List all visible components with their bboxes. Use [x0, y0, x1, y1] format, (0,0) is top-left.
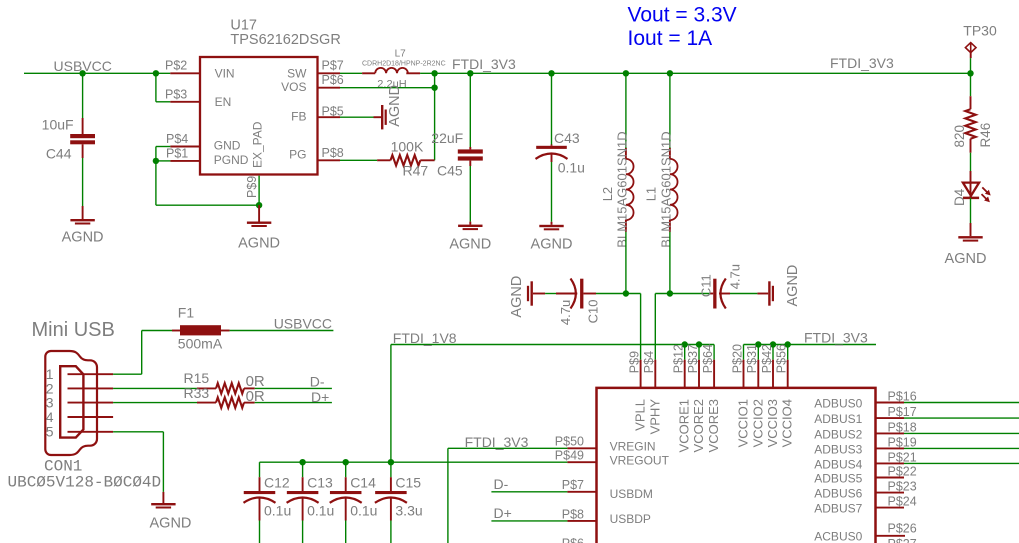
svg-text:R33: R33 [184, 385, 210, 401]
wire ADBUS3 bus [904, 447, 1019, 449]
pin label P$56 (FTDI top) [775, 344, 789, 373]
pin U17 P$8 PG [318, 159, 341, 161]
net label FTDI_1V8 [393, 330, 457, 346]
inductor L7 [362, 68, 420, 73]
svg-text:P$18: P$18 [888, 420, 917, 434]
value 0R (R33) [246, 388, 265, 405]
net label USBVCC [54, 58, 112, 74]
svg-text:VIN: VIN [215, 67, 235, 81]
net label D+ (usb) [311, 389, 329, 405]
value TPS62162DSGR [230, 32, 340, 48]
node junction C15 [388, 459, 394, 465]
wire ADBUS4 bus [904, 462, 1019, 464]
svg-text:D4: D4 [952, 188, 967, 206]
svg-text:P$31: P$31 [745, 344, 759, 373]
pin label P$42 (FTDI top) [760, 344, 774, 373]
name C14 [350, 474, 376, 490]
pin label P$64 (FTDI top) [701, 344, 715, 373]
svg-text:C10: C10 [586, 300, 601, 324]
pin U17 P$7 SW [318, 72, 341, 74]
pin name VREGOUT [610, 454, 670, 468]
pin U17 P$2 VIN [170, 72, 200, 74]
wire pin1 to F1 [113, 331, 172, 375]
svg-text:VPHY: VPHY [647, 399, 662, 435]
node junction L1 top [667, 70, 673, 76]
pin name FB [291, 110, 306, 124]
pin CON1 2 [68, 387, 114, 389]
node junction L7 out [431, 70, 437, 76]
value 0.1u C43 [558, 159, 585, 175]
wire D- to USBDM [491, 491, 567, 493]
connector CON1 inner shell [60, 366, 83, 437]
svg-text:P$27: P$27 [888, 537, 917, 543]
svg-text:0.1u: 0.1u [558, 159, 585, 175]
svg-text:SW: SW [287, 67, 307, 81]
svg-text:VCCIO3: VCCIO3 [765, 399, 780, 447]
name R15 [184, 370, 210, 386]
pin label P$23 [888, 480, 917, 494]
pin label P$18 [888, 420, 917, 434]
pin U17 P$4 GND [170, 146, 200, 148]
value 100K [391, 139, 424, 155]
wire R33 to D+ [255, 402, 332, 404]
pin label P$7 [322, 59, 344, 73]
wire ADBUS2 bus [904, 432, 1019, 434]
wire FB [340, 116, 374, 118]
pin FTDI P$64 VCORE3 [713, 360, 715, 388]
pin name VOS [281, 80, 306, 94]
wire VCCIO rail [744, 344, 877, 346]
pin label P$9 [245, 176, 259, 198]
node junction P$9 [256, 202, 262, 208]
node junction VCORE2 [696, 341, 702, 347]
connector CON1 outer shell [45, 351, 97, 455]
value 2.2uH [377, 78, 406, 90]
wire C44 bottom [82, 158, 84, 206]
svg-text:VCORE2: VCORE2 [691, 399, 706, 452]
name CON1 [44, 458, 82, 476]
node junction C13 [299, 459, 305, 465]
pin name VCORE1 [677, 399, 692, 452]
capacitor C14 [330, 477, 362, 520]
wire C15 top [390, 462, 392, 477]
pin name EX_PAD [251, 121, 265, 168]
pin label P$26 [888, 521, 917, 535]
ground AGND C10 [527, 281, 545, 305]
svg-text:VOS: VOS [281, 80, 306, 94]
pin name ADBUS2 [814, 427, 862, 441]
svg-text:P$8: P$8 [562, 507, 584, 521]
svg-text:PG: PG [289, 147, 306, 161]
wire L1 bottom [669, 232, 671, 294]
resistor R46 [965, 96, 975, 153]
wire VCCIO4 stub [787, 345, 789, 360]
svg-text:C11: C11 [698, 274, 713, 297]
svg-text:TPS62162DSGR: TPS62162DSGR [230, 32, 340, 48]
pin FTDI P$31 VCCIO2 [757, 360, 759, 388]
svg-text:ADBUS0: ADBUS0 [814, 396, 862, 410]
wire FTDI_1V8 down to VREGOUT bus [390, 345, 392, 463]
pin FTDI P$7 USBDM [567, 491, 596, 493]
pin name ADBUS6 [814, 487, 862, 501]
svg-text:P$19: P$19 [888, 435, 917, 449]
wire FTDI_3V3 rail [420, 72, 970, 74]
svg-text:P$9: P$9 [245, 176, 259, 198]
wire VCORE1 stub [684, 345, 686, 360]
pin label P$22 [888, 465, 917, 479]
node junction VCORE1 [682, 341, 688, 347]
wire C14 top [345, 462, 347, 477]
pin name EN [215, 95, 232, 109]
svg-text:ADBUS4: ADBUS4 [814, 457, 862, 471]
svg-text:VREGIN: VREGIN [610, 440, 656, 454]
pin label P$27 [888, 537, 917, 543]
svg-text:FTDI_3V3: FTDI_3V3 [804, 330, 868, 346]
svg-text:P$7: P$7 [322, 59, 344, 73]
svg-text:AGND: AGND [785, 265, 801, 307]
pin U17 P$1 PGND [170, 160, 200, 162]
svg-text:ADBUS3: ADBUS3 [814, 442, 862, 456]
net label D+ (FTDI) [494, 505, 512, 521]
net label USBVCC (fuse) [274, 315, 332, 331]
capacitor C15 [375, 477, 407, 520]
svg-text:R15: R15 [184, 370, 210, 386]
label AGND FB [387, 85, 403, 127]
svg-text:USBDP: USBDP [610, 512, 651, 526]
label AGND C44 [62, 230, 104, 246]
svg-text:P$26: P$26 [888, 521, 917, 535]
name C13 [307, 474, 333, 490]
svg-text:P$12: P$12 [672, 344, 686, 373]
svg-text:P$23: P$23 [888, 480, 917, 494]
wire L1 top [669, 73, 671, 148]
value 3.3u (C15) [395, 503, 422, 519]
pin label P$49 [555, 449, 584, 463]
label AGND C43 [531, 237, 573, 253]
pin name ADBUS7 [814, 502, 862, 516]
pin name USBDP [610, 512, 651, 526]
value 500mA [178, 335, 223, 351]
capacitor C13 [287, 477, 319, 520]
wire C12 bottom [259, 521, 261, 543]
svg-text:P$56: P$56 [775, 344, 789, 373]
pin name ADBUS0 [814, 396, 862, 410]
pin number 3 [46, 395, 54, 411]
pin label P$6 (FTDI) [562, 537, 584, 543]
svg-text:VPLL: VPLL [633, 399, 648, 431]
node junction L1 bottom [667, 290, 673, 296]
svg-text:P$17: P$17 [888, 405, 917, 419]
svg-text:P$20: P$20 [730, 344, 744, 373]
pin name ADBUS4 [814, 457, 862, 471]
capacitor C12 [244, 477, 276, 520]
svg-text:4.7u: 4.7u [558, 300, 573, 325]
name C15 [395, 474, 421, 490]
svg-text:FB: FB [291, 110, 306, 124]
wire FTDI_1V8 [391, 344, 714, 346]
label AGND CON1 [150, 516, 192, 532]
pin FTDI P$12 VCORE1 [684, 360, 686, 388]
pin label P$2 [165, 59, 187, 73]
LED D4 [963, 183, 991, 203]
svg-text:C45: C45 [437, 162, 463, 178]
net label FTDI_3V3 (left) [452, 56, 516, 72]
pin label P$1 [166, 147, 188, 161]
svg-text:VREGOUT: VREGOUT [610, 454, 670, 468]
ground AGND CON1 [151, 492, 175, 509]
IC FTDI box [597, 388, 876, 543]
name R46 [978, 123, 993, 148]
wire SW to L7 [340, 72, 362, 74]
svg-text:FTDI_3V3: FTDI_3V3 [465, 434, 529, 450]
capacitor C44 [70, 118, 95, 158]
wire ADBUS1 bus [904, 417, 1019, 419]
wire L2 top [625, 73, 627, 148]
svg-text:AGND: AGND [62, 230, 104, 246]
svg-text:FTDI_3V3: FTDI_3V3 [830, 55, 894, 71]
pin U17 P$9 EX_PAD stub [258, 176, 260, 206]
wire ADBUS0 bus [904, 402, 1019, 404]
svg-text:Iout = 1A: Iout = 1A [628, 27, 713, 50]
resistor R15 [197, 383, 255, 393]
label AGND TP30 [945, 251, 987, 267]
svg-text:ADBUS2: ADBUS2 [814, 427, 862, 441]
node junction VCCIO2 [755, 341, 761, 347]
svg-text:500mA: 500mA [178, 335, 223, 351]
wire VOS [340, 87, 435, 89]
ground AGND U17 [247, 205, 271, 227]
pin name VCCIO1 [736, 399, 751, 447]
pin FTDI P$4 VPHY [654, 360, 656, 388]
node junction VCCIO3 [770, 341, 776, 347]
svg-text:C43: C43 [554, 130, 580, 146]
svg-text:820: 820 [952, 125, 967, 148]
wire TP30 to rail [970, 58, 972, 73]
label Mini USB [32, 319, 115, 341]
pin name USBDM [610, 487, 653, 501]
node junction P$1 [153, 158, 159, 164]
pin label P$31 (FTDI top) [745, 344, 759, 373]
svg-text:P$50: P$50 [555, 434, 584, 448]
svg-text:D+: D+ [494, 505, 512, 521]
svg-text:AGND: AGND [150, 516, 192, 532]
label AGND U17 [238, 236, 280, 252]
net label FTDI_3V3 (right) [830, 55, 894, 71]
pin FTDI P$23 ADBUS6 [876, 492, 905, 494]
svg-text:D-: D- [494, 476, 509, 492]
pin CON1 3 [68, 402, 114, 404]
name L2 [600, 187, 615, 201]
svg-text:VCCIO2: VCCIO2 [750, 399, 765, 447]
wire C44 top [82, 73, 84, 118]
value 4.7u C11 [728, 264, 743, 289]
svg-text:EN: EN [215, 95, 232, 109]
pin CON1 5 [68, 431, 114, 433]
wire P$3 branch [156, 73, 170, 102]
wire C45 bottom [469, 166, 471, 222]
svg-text:AGND: AGND [531, 237, 573, 253]
net label D- (FTDI) [494, 476, 509, 492]
pin FTDI P$49 VREGOUT [567, 461, 596, 463]
wire VPHY to C11 [655, 293, 710, 295]
wire P$4/P$1 branch [156, 147, 170, 206]
pin label P$4 [166, 132, 188, 146]
value CDRH2D18/HPNP-2R2NC [362, 60, 446, 67]
pin FTDI P$50 VREGIN [567, 447, 596, 449]
wire R46 to D4 [970, 153, 972, 183]
svg-text:P$6: P$6 [562, 537, 584, 543]
pin label P$50 [555, 434, 584, 448]
node junction C45 [467, 70, 473, 76]
svg-text:USBVCC: USBVCC [274, 315, 332, 331]
svg-text:C13: C13 [307, 474, 333, 490]
label AGND C11 [785, 265, 801, 307]
name C11 [698, 274, 713, 297]
svg-text:AGND: AGND [238, 236, 280, 252]
wire D4 to AGND [970, 198, 972, 223]
svg-text:VCCIO4: VCCIO4 [780, 399, 795, 447]
ground AGND C11 [757, 281, 774, 305]
svg-text:P$37: P$37 [686, 344, 700, 373]
wire VCORE2 stub [698, 345, 700, 360]
svg-text:C12: C12 [264, 474, 290, 490]
pin label P$6 [322, 73, 344, 87]
wire F1 to USBVCC [230, 330, 334, 332]
pin name ADBUS1 [814, 412, 862, 426]
pin name VCCIO2 [750, 399, 765, 447]
svg-text:P$64: P$64 [701, 344, 715, 373]
pin label P$7 (FTDI) [562, 478, 584, 492]
wire USBVCC rail [24, 72, 170, 74]
pin FTDI P$19 ADBUS3 [876, 447, 905, 449]
pin label P$37 (FTDI top) [686, 344, 700, 373]
net label FTDI_3V3 (VCCIO) [804, 330, 868, 346]
name L7 [395, 49, 407, 60]
inductor L2 BLM15AG601SN1D [626, 148, 634, 232]
wire C13 top [302, 462, 304, 477]
wire C15 bottom [390, 521, 392, 543]
wire PG [340, 159, 377, 161]
pin name VIN [215, 67, 235, 81]
value 4.7u C10 [558, 300, 573, 325]
pin number 1 [46, 366, 54, 382]
wire C13 bottom [302, 521, 304, 543]
label AGND C45 [449, 237, 491, 253]
name F1 [178, 305, 195, 321]
svg-text:L7: L7 [395, 49, 407, 60]
pin name GND [214, 138, 241, 152]
svg-text:100K: 100K [391, 139, 424, 155]
pin name SW [287, 67, 307, 81]
svg-text:P$1: P$1 [166, 147, 188, 161]
svg-text:4.7u: 4.7u [728, 264, 743, 289]
value BLM15AG601SN1D (L1) [659, 131, 674, 247]
net label FTDI_3V3 (VREGIN) [465, 434, 529, 450]
svg-text:ADBUS6: ADBUS6 [814, 487, 862, 501]
pin label P$8 (FTDI) [562, 507, 584, 521]
pin FTDI P$42 VCCIO3 [772, 360, 774, 388]
pin CON1 4 [68, 416, 114, 418]
svg-text:TP30: TP30 [963, 23, 997, 39]
node junction C14 [343, 459, 349, 465]
node junction L2 bottom [623, 290, 629, 296]
capacitor C43 [536, 145, 568, 163]
value 0.1u (C12) [264, 503, 291, 519]
wire D+ to USBDP [491, 520, 567, 522]
node USBVCC junction C44 [79, 70, 85, 76]
svg-text:R46: R46 [978, 123, 993, 148]
svg-text:5: 5 [46, 424, 54, 440]
svg-text:C14: C14 [350, 474, 376, 490]
capacitor C11 [710, 279, 730, 309]
pin label P$19 [888, 435, 917, 449]
svg-text:L2: L2 [600, 187, 615, 201]
pin name VCCIO3 [765, 399, 780, 447]
wire C43 top [551, 73, 553, 144]
name U17 [230, 18, 257, 34]
svg-text:FTDI_3V3: FTDI_3V3 [452, 56, 516, 72]
wire rail to R46 [970, 73, 972, 96]
node junction TP30 [967, 70, 973, 76]
capacitor C10 [556, 279, 596, 309]
svg-text:ADBUS1: ADBUS1 [814, 412, 862, 426]
pin FTDI P$26 ACBUS0 [876, 535, 906, 537]
pin name VCORE2 [691, 399, 706, 452]
pin number 4 [46, 409, 54, 425]
pin FTDI P$37 VCORE2 [698, 360, 700, 388]
wire VPLL vertical [640, 294, 642, 360]
wire C43 bottom [551, 162, 553, 222]
wire R15 to D- [255, 387, 332, 389]
svg-text:AGND: AGND [509, 276, 525, 318]
name R47 [403, 163, 429, 179]
wire pin5 to AGND [113, 432, 163, 492]
svg-text:3.3u: 3.3u [395, 503, 422, 519]
pin FTDI P$8 USBDP [567, 520, 596, 522]
resistor R33 [197, 397, 255, 407]
pin label P$24 [888, 495, 917, 509]
wire L2 bottom [625, 232, 627, 294]
node junction P$2/P$3 branch [153, 70, 159, 76]
net label D- (usb) [310, 373, 325, 389]
resistor R47 [377, 155, 435, 165]
pin FTDI P$56 VCCIO4 [787, 360, 789, 388]
svg-text:P$3: P$3 [165, 87, 187, 101]
svg-text:C44: C44 [46, 146, 72, 162]
annotation Vout [628, 4, 737, 27]
svg-text:UBCØ5V128-BØCØ4D: UBCØ5V128-BØCØ4D [8, 474, 162, 492]
wire VPHY vertical [654, 294, 656, 360]
name R33 [184, 385, 210, 401]
pin number 2 [46, 380, 54, 396]
pin name VCCIO4 [780, 399, 795, 447]
pin U17 P$3 EN [170, 101, 200, 103]
svg-text:R47: R47 [403, 163, 429, 179]
wire VCORE3 stub [713, 345, 715, 360]
svg-text:F1: F1 [178, 305, 195, 321]
value 0.1u (C13) [307, 503, 334, 519]
pin FTDI P$9 VPLL [640, 360, 642, 388]
svg-text:P$4: P$4 [166, 132, 188, 146]
name C12 [264, 474, 290, 490]
pin name PG [289, 147, 306, 161]
svg-text:VCORE3: VCORE3 [706, 399, 721, 452]
inductor L1 BLM15AG601SN1D [670, 148, 678, 232]
pin FTDI P$17 ADBUS1 [876, 417, 905, 419]
value 10uF [42, 117, 74, 133]
svg-text:22uF: 22uF [431, 130, 463, 146]
pin label P$8 [322, 146, 344, 160]
